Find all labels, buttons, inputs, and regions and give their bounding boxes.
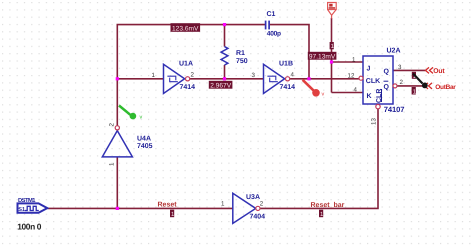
svg-text:DSTM1: DSTM1: [18, 197, 36, 204]
svg-text:U1B: U1B: [279, 60, 293, 67]
svg-text:12: 12: [348, 73, 355, 80]
U2A Qbar bubble: [393, 84, 397, 88]
svg-text:13: 13: [371, 118, 378, 125]
svg-text:123.6mV: 123.6mV: [172, 25, 199, 32]
svg-text:Reset: Reset: [158, 202, 178, 209]
svg-text:97.13mV: 97.13mV: [309, 53, 336, 60]
capacitor C1: [266, 21, 270, 30]
svg-text:1: 1: [109, 162, 116, 166]
svg-text:2: 2: [260, 201, 264, 208]
svg-text:Reset_bar: Reset_bar: [311, 201, 345, 209]
svg-text:OutBar: OutBar: [435, 84, 456, 91]
svg-text:S1: S1: [18, 207, 25, 213]
svg-text:7405: 7405: [137, 143, 153, 150]
inverter U1A: [164, 64, 185, 93]
voltage level marker flag: [328, 3, 337, 19]
U2A CLR bubble: [376, 104, 380, 108]
U1B pin numbers: [252, 72, 295, 80]
junction Reset node: [116, 207, 119, 210]
bias label 123.6mV: [171, 23, 201, 32]
U3A output bubble: [256, 206, 260, 210]
svg-text:Q: Q: [384, 84, 390, 91]
svg-text:750: 750: [236, 58, 248, 65]
svg-text:3: 3: [252, 72, 256, 79]
wire bottom Reset from DSTM1: [48, 207, 233, 209]
inverter U4A: [102, 131, 132, 157]
svg-text:U1A: U1A: [179, 60, 193, 67]
svg-text:v: v: [140, 114, 143, 120]
wire U4A output lead: [116, 157, 118, 208]
U1B output bubble: [286, 77, 290, 81]
wire Reset_bar to CLR: [260, 109, 378, 208]
wire U1A input: [117, 78, 163, 80]
junction R1 bottom node: [223, 77, 226, 80]
U3A labels: [246, 194, 265, 220]
svg-text:U2A: U2A: [387, 48, 401, 55]
JK flip-flop U2A: [363, 56, 393, 104]
inverter U3A: [233, 193, 256, 223]
off-page connector Out: [426, 67, 434, 73]
digital state marker Reset: [170, 210, 175, 218]
U1B labels: [279, 60, 295, 91]
inverter U1B: [264, 64, 285, 93]
svg-text:C1: C1: [267, 11, 276, 18]
digital state marker J: [330, 42, 335, 50]
svg-text:1: 1: [352, 57, 356, 64]
wire Qbar output: [397, 85, 424, 87]
wire U1A output to U1B input: [190, 78, 264, 80]
svg-text:U4A: U4A: [137, 136, 151, 143]
wire top horizontal left of C1: [117, 25, 265, 126]
svg-text:U3A: U3A: [246, 194, 260, 201]
wire top horizontal right of C1: [270, 25, 309, 79]
svg-text:1: 1: [152, 72, 156, 79]
U4A output bubble: [115, 126, 119, 130]
junction J node: [330, 60, 333, 63]
digital state marker Q: [412, 72, 417, 80]
svg-text:Out: Out: [433, 68, 445, 75]
svg-text:3: 3: [398, 64, 402, 71]
svg-text:4: 4: [291, 72, 295, 79]
svg-text:4: 4: [354, 87, 358, 94]
svg-text:R1: R1: [236, 50, 245, 57]
DSTM1 waveform glyph: [25, 206, 39, 210]
wire U1B output to U2A CLK: [290, 78, 360, 80]
svg-text:CLK: CLK: [366, 78, 380, 85]
junction U1A input node: [116, 77, 119, 80]
wire J K tie vertical: [331, 18, 333, 93]
off-page connector OutBar: [425, 83, 433, 89]
CLR overbar: [381, 89, 383, 102]
node junction dots: [116, 23, 333, 210]
U3A pin numbers: [221, 201, 264, 208]
U4A labels: [137, 136, 153, 150]
svg-text:100n 0: 100n 0: [17, 221, 41, 231]
junction feedback node: [307, 77, 310, 80]
R1 labels: [236, 50, 248, 65]
U2A CLK input bubble: [359, 76, 363, 80]
junction R1 top node: [223, 23, 226, 26]
green voltage probe: [119, 106, 143, 121]
bias label 97.13mV: [308, 52, 337, 61]
U2A labels: [384, 48, 405, 115]
wire R1 top lead: [224, 25, 226, 47]
digital state marker Reset_bar: [319, 210, 324, 218]
svg-text:2: 2: [400, 79, 404, 86]
digital stimulus DSTM1: [18, 203, 48, 212]
wire K input: [332, 92, 364, 94]
svg-text:2.967V: 2.967V: [210, 82, 232, 89]
svg-text:7414: 7414: [180, 84, 196, 91]
digital state marker Qbar: [412, 87, 417, 95]
svg-text:J: J: [367, 65, 371, 72]
U1A labels: [179, 60, 195, 91]
svg-text:K: K: [367, 93, 372, 100]
svg-text:2: 2: [191, 72, 195, 79]
U2A interior pin names: [366, 65, 390, 103]
wire Q output: [393, 69, 426, 71]
svg-text:2: 2: [109, 123, 116, 127]
svg-text:Q: Q: [384, 69, 390, 76]
svg-text:1: 1: [221, 201, 225, 208]
U2A pin numbers: [348, 57, 404, 126]
U1A output bubble: [186, 77, 190, 81]
svg-text:7404: 7404: [250, 213, 266, 220]
svg-text:v: v: [322, 91, 325, 97]
U4A pin numbers: [109, 123, 116, 167]
bias label 2.967V: [209, 81, 233, 90]
U1A pin numbers: [152, 72, 195, 80]
red voltage probe: [303, 80, 325, 98]
resistor R1: [221, 47, 228, 65]
svg-text:400p: 400p: [267, 31, 281, 38]
svg-text:74107: 74107: [384, 105, 405, 114]
black voltage probe: [413, 74, 428, 89]
svg-text:7414: 7414: [280, 84, 296, 91]
wire J input: [332, 61, 364, 63]
C1 labels: [267, 11, 282, 38]
Qbar overbar: [384, 80, 389, 82]
wire R1 bottom lead: [224, 65, 226, 79]
